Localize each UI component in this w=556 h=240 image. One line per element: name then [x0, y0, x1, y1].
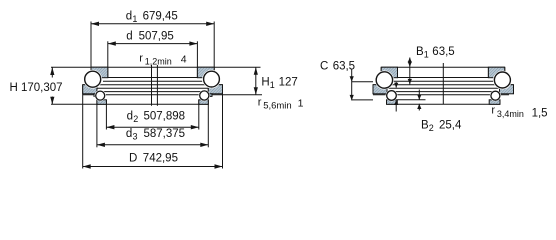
left figure: shaft washer cut block left	[91, 67, 108, 78]
label C 63,5	[320, 60, 355, 72]
left figure: bore left edge + d extension line	[107, 41, 109, 77]
left figure: raceway shoulder line	[103, 80, 202, 82]
right figure: shaft washer OD left edge	[380, 67, 382, 78]
right figure: inner edge line	[373, 87, 514, 89]
left figure: housing washer bore right edge + d3 extension line	[207, 85, 209, 148]
right figure: housing washer OD right edge	[513, 85, 515, 94]
right figure: housing washer OD left edge	[372, 85, 374, 94]
dimension B2: outside arrows	[417, 90, 421, 111]
left figure: seat washer bore left edge + d2 extension line	[105, 100, 107, 130]
label H 170,307	[10, 82, 63, 94]
svg-text:2: 2	[133, 114, 138, 124]
left figure: large ball right	[202, 70, 221, 89]
svg-text:1: 1	[298, 98, 304, 110]
svg-text:r: r	[491, 105, 495, 117]
svg-text:507,898: 507,898	[144, 111, 186, 123]
svg-text:H: H	[261, 77, 269, 89]
right figure: shaft washer bore left edge	[397, 67, 399, 77]
svg-text:2: 2	[429, 123, 434, 133]
left figure: inner edge line	[83, 87, 223, 89]
left figure: seat washer cut block left	[97, 100, 107, 105]
label D 742,95	[129, 153, 178, 165]
left figure: bottom face line with H extension	[51, 103, 208, 105]
left figure: shaft washer OD left edge + d1 extension line	[90, 22, 92, 79]
left figure: seat washer cut block right	[199, 100, 209, 105]
svg-text:1: 1	[424, 50, 429, 60]
svg-text:1: 1	[270, 80, 275, 90]
dimension B1: arrow through shaft washer	[408, 58, 412, 85]
left figure: shaft washer bottom face (bore view)	[108, 77, 198, 79]
right figure: seat washer top face extension stub for B2	[398, 99, 426, 101]
left figure: step lip left	[94, 94, 97, 97]
left figure: large ball left	[83, 70, 102, 89]
left figure: center split line b	[156, 65, 158, 106]
dimension D: line with arrowheads	[83, 164, 223, 168]
dimension H: lower arrow	[50, 97, 54, 105]
right figure: large ball right	[493, 71, 512, 90]
label B1 63,5	[416, 46, 455, 60]
left figure: center split line a	[151, 65, 153, 106]
dimension C: arrow with stubs	[350, 69, 373, 100]
right figure: center line	[442, 63, 444, 104]
dimension d3: line with arrowheads	[97, 143, 208, 147]
left figure: shaft washer OD right edge + d1 extension line	[213, 22, 215, 79]
right figure: small ball right	[490, 90, 501, 101]
left figure: housing washer OD left edge + D extension line	[82, 85, 84, 169]
label d 507,95	[126, 31, 174, 43]
svg-text:587,375: 587,375	[144, 128, 186, 140]
svg-text:r: r	[258, 97, 262, 109]
svg-text:d: d	[126, 128, 132, 140]
svg-text:H: H	[10, 82, 18, 94]
left figure: inner edge line 2	[83, 91, 223, 93]
right figure: housing washer cut block left	[373, 85, 387, 94]
right figure: shaft washer bottom face	[398, 77, 489, 79]
right figure: shaft washer cut block left	[381, 67, 397, 78]
svg-text:1: 1	[132, 14, 137, 24]
left figure: housing washer cut block left	[83, 85, 97, 94]
svg-text:4: 4	[181, 53, 187, 65]
svg-text:d: d	[126, 31, 132, 43]
right figure: housing washer cut block right	[500, 85, 514, 94]
svg-text:3: 3	[133, 132, 138, 142]
right figure: large ball left	[375, 71, 394, 90]
left figure: shaft washer cut block right	[197, 67, 214, 78]
svg-text:3,4min: 3,4min	[497, 109, 524, 119]
svg-text:679,45: 679,45	[143, 10, 178, 22]
svg-text:B: B	[421, 120, 429, 132]
right figure: shaft washer cut block right	[488, 67, 504, 78]
svg-text:507,95: 507,95	[139, 31, 174, 43]
right figure: shaft washer bore right edge	[487, 67, 489, 77]
right figure: bottom face line	[387, 103, 501, 105]
label r3,4min 1,5	[491, 105, 547, 120]
right figure: inner edge line 2	[373, 91, 514, 93]
dimension d1: line with arrowheads	[91, 22, 214, 26]
left figure: housing washer cut block right	[208, 85, 222, 94]
left figure: small ball left	[95, 90, 106, 101]
left figure: seat washer bore right edge + d2 extension line	[198, 100, 200, 130]
right figure: housing washer bottom face	[373, 94, 509, 96]
right figure: raceway shoulder line	[393, 80, 494, 82]
right figure: shaft washer top face	[381, 66, 505, 68]
right figure: housing washer top face	[373, 84, 514, 86]
left figure: shaft washer top face line with H and H1 extensions	[51, 66, 261, 68]
left figure: step lip right	[210, 94, 213, 97]
right figure: seat washer cut block left	[387, 100, 398, 105]
svg-text:63,5: 63,5	[333, 60, 355, 72]
svg-text:B: B	[416, 46, 424, 58]
svg-text:1,5: 1,5	[532, 107, 548, 119]
dimension d2: line with arrowheads	[106, 125, 198, 129]
auxiliary arrows at ball row	[394, 82, 398, 112]
label r5,6min 1	[258, 97, 304, 112]
left figure: bore right edge + d extension line	[196, 41, 198, 77]
svg-text:742,95: 742,95	[143, 153, 178, 165]
right figure: small ball left	[386, 90, 398, 102]
svg-text:d: d	[127, 111, 133, 123]
svg-text:170,307: 170,307	[21, 82, 63, 94]
left figure: housing washer OD right edge + D extension line	[222, 85, 224, 169]
left figure: housing washer top face	[83, 84, 223, 86]
label H1 127	[261, 77, 297, 91]
dimension H: upper arrow	[50, 67, 54, 77]
svg-text:C: C	[320, 60, 328, 72]
svg-text:d: d	[126, 10, 132, 22]
svg-text:5,6min: 5,6min	[263, 101, 292, 112]
left figure: housing washer bore left edge + d3 extension line	[96, 85, 98, 148]
left figure: housing washer bottom face with r5,6 extension	[83, 94, 262, 96]
dimension d: line with arrowheads	[108, 41, 198, 45]
svg-text:1,2min: 1,2min	[145, 56, 172, 66]
right figure: shaft washer OD right edge	[504, 67, 506, 78]
dimension H1: double arrow	[254, 67, 258, 95]
label d3 587,375	[126, 128, 185, 142]
label d2 507,898	[127, 111, 185, 125]
label d1 679,45	[126, 10, 178, 24]
svg-text:25,4: 25,4	[439, 120, 462, 132]
svg-text:D: D	[129, 153, 137, 165]
left figure: small ball right	[199, 90, 210, 101]
svg-text:127: 127	[279, 77, 298, 89]
label r1,2min 4	[139, 52, 187, 66]
svg-text:r: r	[139, 52, 143, 64]
svg-text:63,5: 63,5	[432, 46, 454, 58]
right figure: seat washer cut block right	[489, 100, 500, 105]
label B2 25,4	[421, 120, 462, 134]
